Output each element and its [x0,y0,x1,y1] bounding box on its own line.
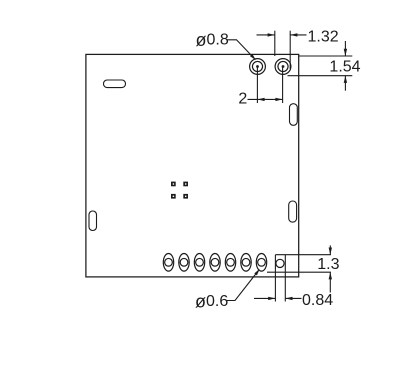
slot right edge lower [289,201,297,222]
svg-text:0.84: 0.84 [302,292,333,309]
svg-text:1.54: 1.54 [329,58,360,75]
pin pad 8 (round pad in corner box) [276,259,284,267]
fiducial square A [171,182,176,187]
svg-text:1.3: 1.3 [317,256,339,273]
pin pad 7 [256,253,266,271]
fiducial square C [171,194,176,199]
svg-text:1.32: 1.32 [308,28,339,45]
slot right edge upper [290,104,298,126]
antenna pad ANT1 (top left hole) [250,59,266,75]
board outline [86,54,299,277]
corner box left edge / 0.84 extension line [274,255,276,302]
pin pad 4 [210,253,220,271]
leader Ø0.8 [227,40,256,60]
pin pad 6 [241,253,251,271]
pin pad 3 [194,253,204,271]
slot left edge [89,211,97,231]
corner box top edge / 1.3 top extension line [275,254,331,256]
dimension 1.54 [288,41,353,91]
svg-text:2: 2 [238,91,247,108]
fiducial square B [183,182,188,187]
leader Ø0.6 [227,269,260,301]
dimension 2 [248,68,283,104]
dimension 1.3 [329,245,332,292]
dimension 0.84 [254,297,302,300]
pin pad 5 [225,253,235,271]
mounting slot top-left [104,80,126,88]
svg-text:ø0.8: ø0.8 [196,30,229,50]
dimension 1.32 [257,31,307,69]
pin pad 1 [163,253,173,271]
pin pad 2 [179,253,189,271]
fiducial square D [183,194,188,199]
svg-text:ø0.6: ø0.6 [195,292,228,312]
antenna pad ANT2 (top right hole) [275,59,291,75]
corner box divider / 0.84 extension line [284,255,286,302]
corner box bottom edge / 1.3 bottom extension line [267,271,331,273]
